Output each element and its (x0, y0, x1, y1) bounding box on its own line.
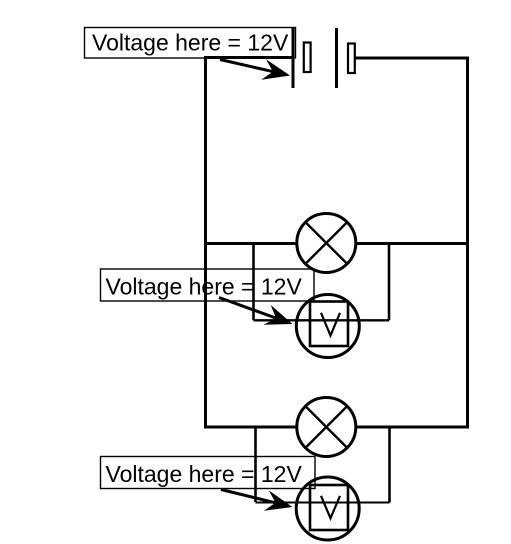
wire: top left (battery to left rail) (204, 56, 293, 59)
wire: voltmeter V2 horizontal link (256, 502, 390, 504)
arrow from label 1 to battery (220, 59, 290, 79)
label box 3 "Voltage here = 12V" (101, 457, 316, 489)
wire: left rail (204, 56, 207, 429)
wire: voltmeter V2 right branch (388, 427, 391, 503)
battery cell 2 short plate (348, 44, 355, 74)
lamp L1 (297, 214, 356, 273)
arrow from label 2 to voltmeter V1 (219, 298, 293, 325)
wire: middle row right (356, 242, 470, 245)
label box 2 "Voltage here = 12V" (101, 269, 315, 301)
wire: middle row left (204, 242, 297, 245)
wire: voltmeter V2 left branch (254, 427, 257, 502)
battery cell 2 long plate (335, 28, 338, 88)
wire: top right (battery to right rail) (355, 57, 469, 60)
wire: voltmeter V1 left branch (252, 244, 255, 321)
battery cell 1 long plate (292, 27, 295, 88)
wire: voltmeter V1 horizontal link (254, 319, 390, 321)
svg-text:Voltage here = 12V: Voltage here = 12V (106, 274, 303, 300)
lamp L2 (297, 398, 356, 457)
wire: voltmeter V1 right branch (388, 244, 391, 321)
voltmeter V1 (296, 295, 359, 358)
wire: right rail (466, 57, 469, 429)
voltmeter V2 (296, 477, 359, 540)
svg-text:Voltage here = 12V: Voltage here = 12V (106, 461, 303, 487)
label box 1 "Voltage here = 12V" (85, 28, 296, 59)
battery cell 1 short plate (304, 43, 311, 73)
svg-text:Voltage here = 12V: Voltage here = 12V (92, 30, 289, 56)
wire: bottom row right (356, 426, 470, 429)
arrow from label 3 to voltmeter V2 (221, 490, 293, 511)
wire: bottom row left (204, 426, 297, 429)
